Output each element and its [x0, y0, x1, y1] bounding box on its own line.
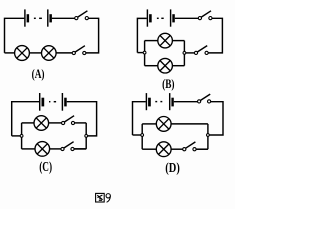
svg-text:(C): (C): [39, 159, 52, 174]
svg-text:(D): (D): [165, 160, 180, 175]
svg-text:(A): (A): [32, 67, 45, 81]
svg-text:(B): (B): [162, 77, 174, 91]
